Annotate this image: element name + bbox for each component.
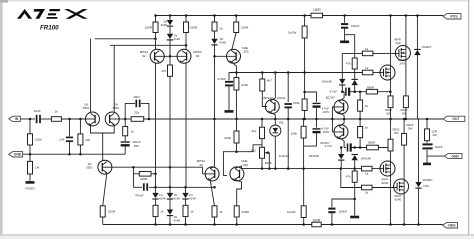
resistor 1k VAS top [214,16,216,23]
svg-text:GND: GND [451,154,459,158]
svg-text:1N4148: 1N4148 [279,154,290,158]
svg-text:1k: 1k [365,66,369,70]
wire [40,118,51,120]
resistor 1k feedback shunt [124,119,126,126]
svg-text:10uF: 10uF [133,95,140,99]
wire emitters join [91,125,115,133]
svg-text:1N4148: 1N4148 [309,154,320,158]
svg-text:100nF: 100nF [277,96,286,100]
svg-text:22k: 22k [134,110,139,114]
diode 1N4148 D10 [340,148,342,155]
wire Q7 collector [210,167,214,168]
wire Q10 emitter to bus [343,118,346,121]
capacitor 100nF vbe multiplier [287,71,290,74]
terminal POS [443,14,461,19]
svg-text:IN: IN [15,117,19,121]
diode 1N4148 D1 bias [169,14,172,17]
wire VAS column [214,44,216,167]
wire Q9 emitter to bus [270,112,275,119]
svg-text:1k/2W: 1k/2W [287,210,296,214]
svg-text:1k: 1k [365,47,369,51]
resistor 1k/2W upper rail dropper [303,14,306,17]
LED YEL indicator [274,118,277,121]
svg-text:100R: 100R [313,218,321,222]
diode 1N4148 D3 [214,31,216,39]
wire trimmer bottom [261,158,263,168]
resistor 0R22 5W M2 source [388,96,393,108]
wire 220uF to gnd rail [124,147,126,155]
resistor 220R bias filter [133,173,139,175]
wire collector bus upper [95,38,156,40]
diode 1N4148 D5 [169,187,171,193]
svg-text:1N4148: 1N4148 [361,157,372,161]
svg-text:220R: 220R [145,26,153,30]
wire Q8 emitter loop [235,180,242,206]
svg-text:NEG: NEG [448,224,456,228]
svg-text:5551: 5551 [83,106,90,110]
resistor 1k D7 column [185,198,187,205]
resistor 680R upper [366,89,377,94]
resistor 220R cascode right [184,22,189,33]
svg-text:1k: 1k [365,191,369,195]
APEX logo [17,9,88,19]
wire Q4 collector down [155,63,157,187]
resistor 47k lower gate bleed [354,169,356,171]
ground 470pF [225,110,234,113]
ground zobel [426,156,428,163]
wire Q10 base to bus [331,118,334,121]
wire M1 drain [405,16,407,50]
svg-text:4,7uF: 4,7uF [330,90,338,94]
svg-text:470uF: 470uF [135,194,144,198]
wire M3 drain [390,172,392,225]
resistor 47k cascode base [169,56,171,65]
capacitor 470uF bias filter [143,183,145,190]
svg-text:220R: 220R [241,26,249,30]
resistor 1M to PGND [29,154,31,161]
wire bypass to 47k upper [345,35,355,58]
svg-text:220R: 220R [190,26,198,30]
svg-text:1k: 1k [365,104,369,108]
svg-text:1N4007: 1N4007 [423,178,434,182]
svg-text:4148: 4148 [174,37,181,41]
svg-text:4148: 4148 [159,196,166,200]
terminal NEG [443,223,458,228]
resistor 1k gate M4 [362,185,373,190]
transistor BC337 Q10 driver [334,100,348,114]
svg-text:BC337: BC337 [326,95,336,99]
svg-text:100k: 100k [290,131,297,135]
resistor 2k2 upper [261,118,264,121]
diode 1N4148 D9 [352,78,358,80]
capacitor 10uF feedback bypass [124,118,127,121]
wire Q6 base [215,55,237,57]
resistor 47k upper gate bleed [352,58,357,69]
svg-text:1k: 1k [160,209,164,213]
wire collector bus lower [110,44,186,46]
wire [185,16,187,23]
wire shared bases [155,55,187,57]
wire Q9 collector [274,71,277,74]
resistor 220k input return [28,134,33,145]
svg-text:1N4007: 1N4007 [421,45,432,49]
wire M2 source [390,76,392,96]
svg-text:BD139: BD139 [264,96,274,100]
capacitor 470pF compensation [228,73,230,81]
svg-text:4148: 4148 [174,218,181,222]
diode 1N4148 D4 [155,187,157,193]
wire base Q2 [110,118,119,120]
wire box left rail [132,167,134,187]
svg-text:BIAS: BIAS [265,161,272,165]
resistor 0R22 5W M1 source [403,96,408,108]
svg-text:100R: 100R [313,8,321,12]
node input bias [29,118,32,121]
resistor 220k VAS load [235,73,237,78]
svg-text:22k: 22k [85,138,90,142]
svg-text:10uF: 10uF [34,109,41,113]
svg-text:92: 92 [142,54,146,58]
wire Q1 collector up [90,39,92,113]
svg-text:240: 240 [400,62,405,66]
wire Q7 base [203,173,215,175]
resistor 100k upper [302,99,307,111]
svg-text:470pF: 470pF [217,77,226,81]
wire Q5 collector down [185,63,187,187]
resistor 100R (POS rail) [311,13,323,18]
wire to diff base [61,118,86,120]
svg-text:25V: 25V [134,144,139,148]
svg-text:2k2: 2k2 [252,129,257,133]
lower driver wire [344,147,346,149]
svg-text:47k: 47k [161,69,166,73]
svg-text:160V: 160V [323,130,330,134]
NEG supply rail [103,224,312,226]
capacitor 1nF input filter [68,118,71,121]
svg-text:92: 92 [196,54,200,58]
page edge shading [0,0,3,239]
svg-text:2k2: 2k2 [251,149,256,153]
wire 47k down to diode rail [169,76,171,187]
svg-text:47k: 47k [346,61,351,65]
resistor 22k input load [79,118,82,121]
svg-text:1k: 1k [365,126,369,130]
capacitor 220uF feedback [124,136,126,141]
wire Q6 emitter to 220R [232,33,237,51]
svg-text:220R: 220R [140,177,148,181]
ground NEG bypass node [353,198,356,201]
diode 1N4148 D7 [185,187,187,193]
wire 4k7 to BD139 base [262,91,267,107]
svg-text:680R: 680R [368,141,376,145]
svg-text:D13: D13 [424,184,430,188]
svg-text:PGND: PGND [26,186,36,190]
resistor 4k7 vbe divider [261,71,264,74]
wire [102,217,104,225]
terminal IN [9,116,20,121]
capacitor 4.7uF upper bootstrap [305,92,317,102]
svg-text:4148: 4148 [189,196,196,200]
node 220k gnd [29,153,32,156]
svg-text:220k: 220k [35,138,42,142]
svg-text:1k: 1k [219,27,223,31]
resistor 680R lower [367,145,379,150]
MOSFET IRFP240 M1 [395,46,410,61]
transistor MJE340 Q8 [230,167,244,181]
svg-text:9240: 9240 [382,181,389,185]
wire M1 source [405,56,407,96]
svg-text:5W: 5W [394,131,399,135]
ground POS bypass [340,40,349,43]
svg-text:220k: 220k [224,136,231,140]
svg-text:4k7: 4k7 [267,79,272,83]
resistor 220R cascode left [153,22,158,33]
svg-text:100nF: 100nF [339,210,348,214]
svg-text:1k: 1k [55,110,59,114]
transistor MPSA92 Q5 [177,49,191,63]
svg-text:220R: 220R [108,209,116,213]
svg-text:42: 42 [199,163,203,167]
svg-text:4148: 4148 [220,40,227,44]
resistor 1k/2W lower rail dropper [303,169,305,206]
wire Q3 emitter to 220R [103,173,107,206]
capacitor 4.7uF driver upper [345,88,347,96]
bias line right [242,168,363,170]
wire M4 source [403,145,405,183]
transistor BC327 Q11 driver [334,125,348,139]
svg-text:340: 340 [243,163,248,167]
wire Q10 collector [339,92,344,102]
resistor 1k upper driver [359,92,361,100]
svg-text:1k: 1k [190,209,194,213]
capacitor 4.7uF driver lower [347,143,349,151]
wire Q3 base [102,166,111,168]
wire 10uF left node to 220k [29,119,31,134]
resistor 100k lower [302,118,305,121]
wire dropper to gate line 2 [304,38,306,92]
wire Q11 base to bus [332,119,343,132]
transistor MJE350 Q6 [227,49,241,63]
gate line 4 [341,169,362,188]
svg-text:47k: 47k [346,175,351,179]
wire M3 source [390,151,392,165]
transistor 2N5551 Q1 diff left [86,112,100,126]
transistor BD139 Q9 vbe multiplier [265,100,279,114]
output feedback bus [119,118,131,120]
trimmer 2k2 BIAS [261,139,263,148]
svg-text:240: 240 [396,41,401,45]
MOSFET IRFP240 M2 [380,65,395,80]
wire Q11 emitter [339,138,344,148]
gate line 3 [362,166,373,171]
resistor 1k Q7 emitter [212,206,217,217]
transistor 2N5551 Q3 current source [98,160,112,174]
POS supply rail [156,15,312,17]
wire [169,39,171,56]
wire [155,16,157,23]
resistor 1k gate M2 [362,70,373,75]
svg-text:1k: 1k [219,210,223,214]
resistor 220R Q3 emitter [100,206,105,217]
wire [29,145,31,154]
wire Q11 collector to bus [339,119,344,126]
gate line 1 [342,52,362,54]
svg-text:1k: 1k [365,172,369,176]
svg-text:1M: 1M [35,166,40,170]
capacitor 10uF input coupling [36,115,38,123]
svg-text:680R: 680R [367,85,375,89]
wire [185,33,187,50]
svg-text:220k: 220k [241,83,248,87]
svg-text:160V: 160V [323,110,330,114]
svg-text:FR100: FR100 [40,25,59,32]
transistor 2N5551 Q2 diff right [105,112,119,126]
resistor 220R Q8 emitter [234,206,239,217]
diode string rail [133,186,142,188]
resistor 0R22 5W M3 source [388,139,393,151]
transistor MPSA42 Q7 [205,167,219,181]
svg-text:2W: 2W [433,133,438,137]
svg-text:YEL: YEL [279,121,285,125]
capacitor 100nF POS bypass [343,14,346,17]
terminal GND zobel [427,155,444,157]
resistor 220R Q6 emitter [234,22,239,33]
svg-text:4148: 4148 [174,196,181,200]
svg-text:POS: POS [450,15,458,19]
diode 1N4148 D11 [352,154,358,156]
wire M2 drain [390,16,392,69]
resistor 22k feedback [131,117,144,122]
svg-text:220R: 220R [242,210,250,214]
wire 230k node to trimmer [237,145,263,152]
svg-text:GND: GND [14,153,22,157]
svg-text:100nF: 100nF [351,24,360,28]
wire M4 drain [403,190,405,225]
MOSFET IRFP9240 M3 [380,161,395,176]
svg-text:1k/2W: 1k/2W [288,30,297,34]
terminal GND input [9,152,23,157]
svg-text:OUT: OUT [452,117,460,121]
wire base Q1 [86,118,95,120]
wire 230k to Q8 base drop [236,143,238,152]
wire Q2 collector up [113,45,115,112]
svg-text:1nF: 1nF [59,137,64,141]
svg-text:100nF: 100nF [435,145,443,149]
svg-text:350: 350 [244,50,249,54]
resistor 1k D4 column [155,198,157,205]
capacitor 4.7uF lower bootstrap [316,119,318,128]
diode 1N4148 D6 [169,198,171,209]
wire Q6 collector down gate line 2 [232,62,237,73]
diode 1N4007 D13 flyback NEG [418,119,420,182]
svg-text:4148: 4148 [161,23,168,27]
svg-text:4,7uF: 4,7uF [325,144,333,148]
capacitor 100nF NEG bypass [332,199,355,207]
resistor 22R 2W zobel [426,118,429,121]
svg-text:5W: 5W [408,126,413,130]
wire input [20,118,35,120]
wire Q8 collector to bias line [235,166,242,169]
svg-text:5551: 5551 [86,166,93,170]
terminal OUT [443,116,465,121]
svg-text:100k: 100k [293,101,300,105]
wire [169,26,171,34]
diode 1N4148 D8 [341,53,343,79]
resistor 1k gate M1 [362,51,373,56]
capacitor 100nF zobel [426,141,428,143]
bias reference wire left [111,167,203,174]
diode 1N4148 D2 bias [167,34,173,39]
wire tail [102,133,104,160]
transistor MPSA92 Q4 [150,49,164,63]
svg-text:9240: 9240 [395,198,402,202]
ground PGND [26,181,35,184]
resistor 100R (NEG rail) [312,222,321,227]
wire Q7 emitter to 1k [210,180,214,206]
resistor 230k VAS feedback [235,118,238,121]
upper driver wire [342,91,344,93]
svg-text:5551: 5551 [113,106,120,110]
svg-text:1N4148: 1N4148 [321,79,332,83]
MOSFET IRFP9240 M4 [394,179,409,194]
diode 1N4007 D12 flyback POS [416,14,419,17]
wire trimmer wiper [268,153,271,169]
resistor 0R22 5W M4 source [402,133,407,145]
resistor 1k lower driver [359,127,361,138]
wire [155,33,157,50]
svg-text:1k: 1k [131,130,135,134]
signal ground rail [23,153,125,155]
resistor 1k input [51,117,61,122]
